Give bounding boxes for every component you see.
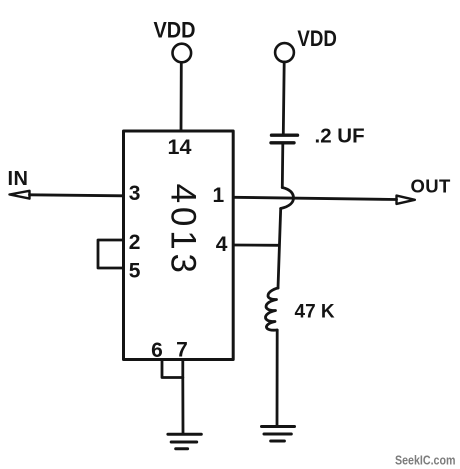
- capacitor C1 plate bottom: [271, 141, 294, 144]
- svg-text:4013: 4013: [163, 184, 202, 277]
- svg-text:1: 1: [213, 184, 225, 207]
- svg-text:7: 7: [176, 339, 188, 362]
- output arrow (open triangle): [397, 196, 415, 204]
- VDD terminal circle (left): [173, 44, 192, 63]
- svg-text:5: 5: [129, 259, 141, 282]
- wire resistor to ground: [276, 330, 279, 426]
- wire pin 4 to node: [234, 244, 279, 247]
- wire VDD to capacitor: [282, 62, 286, 133]
- wire VDD to pin 14: [180, 63, 183, 132]
- ground (right, below resistor): [262, 427, 295, 442]
- wire pin 7 to ground: [181, 378, 184, 434]
- svg-text:14: 14: [168, 135, 192, 159]
- svg-text:VDD: VDD: [154, 17, 196, 42]
- svg-text:47 K: 47 K: [295, 302, 335, 323]
- ground (left, below IC): [168, 434, 201, 449]
- wire capacitor to hop: [281, 145, 284, 188]
- IC U1 4013 body: [124, 131, 234, 360]
- wire IN to pin 3: [30, 195, 124, 196]
- svg-text:OUT: OUT: [411, 176, 452, 197]
- svg-text:SeekIC.com: SeekIC.com: [395, 452, 456, 467]
- capacitor C1 plate top: [272, 133, 298, 136]
- pins 2-5 jumper loop: [98, 240, 124, 268]
- svg-text:3: 3: [129, 182, 141, 205]
- svg-text:.2 UF: .2 UF: [315, 124, 365, 147]
- VDD terminal circle (right): [275, 43, 294, 62]
- svg-text:VDD: VDD: [297, 26, 337, 51]
- pins 6-7 jumper loop: [162, 360, 183, 378]
- wire pin 1 to OUT: [234, 197, 397, 199]
- wire hop to resistor: [278, 209, 281, 289]
- svg-text:4: 4: [216, 233, 228, 256]
- svg-text:IN: IN: [8, 168, 29, 190]
- svg-text:2: 2: [129, 231, 141, 254]
- input arrow (open triangle): [10, 191, 30, 199]
- resistor R1 47K coil: [265, 288, 278, 330]
- wire hop over OUT line: [281, 188, 294, 209]
